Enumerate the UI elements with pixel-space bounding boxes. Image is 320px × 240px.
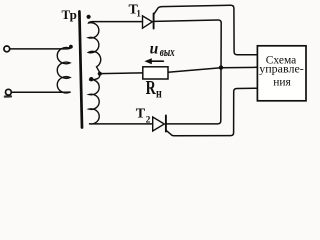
terminal top-left <box>4 46 10 52</box>
wire T1 cathode to common node <box>155 20 221 124</box>
svg-text:н: н <box>156 85 162 101</box>
svg-text:Т: Т <box>136 107 146 122</box>
winding secondary lower W2b <box>89 74 100 124</box>
wire primary top <box>10 47 70 50</box>
svg-text:u: u <box>150 41 159 58</box>
svg-text:вых: вых <box>160 46 175 60</box>
resistor Rn <box>143 67 168 79</box>
svg-text:2: 2 <box>146 115 151 125</box>
wire secondary bottom to T2 anode <box>97 123 153 125</box>
winding secondary upper W2a <box>89 22 101 73</box>
arrow u_out <box>149 60 164 62</box>
gate T1 <box>154 5 257 55</box>
svg-text:R: R <box>146 77 157 99</box>
thyristor T2 <box>153 117 165 131</box>
polarity dot secondary lower <box>89 77 93 81</box>
svg-text:Тр: Тр <box>62 7 77 22</box>
transformer core <box>79 12 82 128</box>
control box <box>257 46 306 101</box>
winding primary W1 <box>57 48 70 93</box>
polarity dot secondary upper <box>87 15 91 19</box>
terminal bottom-left <box>5 89 11 95</box>
node center tap <box>98 72 102 76</box>
thyristor T1 <box>143 16 153 28</box>
svg-text:1: 1 <box>136 9 141 19</box>
wire primary bottom <box>12 91 70 93</box>
wire secondary top to T1 anode <box>93 21 143 23</box>
wire center tap to box (through load) <box>100 67 257 73</box>
svg-text:ния: ния <box>273 76 291 88</box>
svg-text:управле-: управле- <box>259 61 304 75</box>
gate T2 <box>166 88 257 136</box>
smudge mark <box>5 95 11 97</box>
node common cathode junction <box>219 65 223 69</box>
polarity dot primary <box>69 45 73 49</box>
